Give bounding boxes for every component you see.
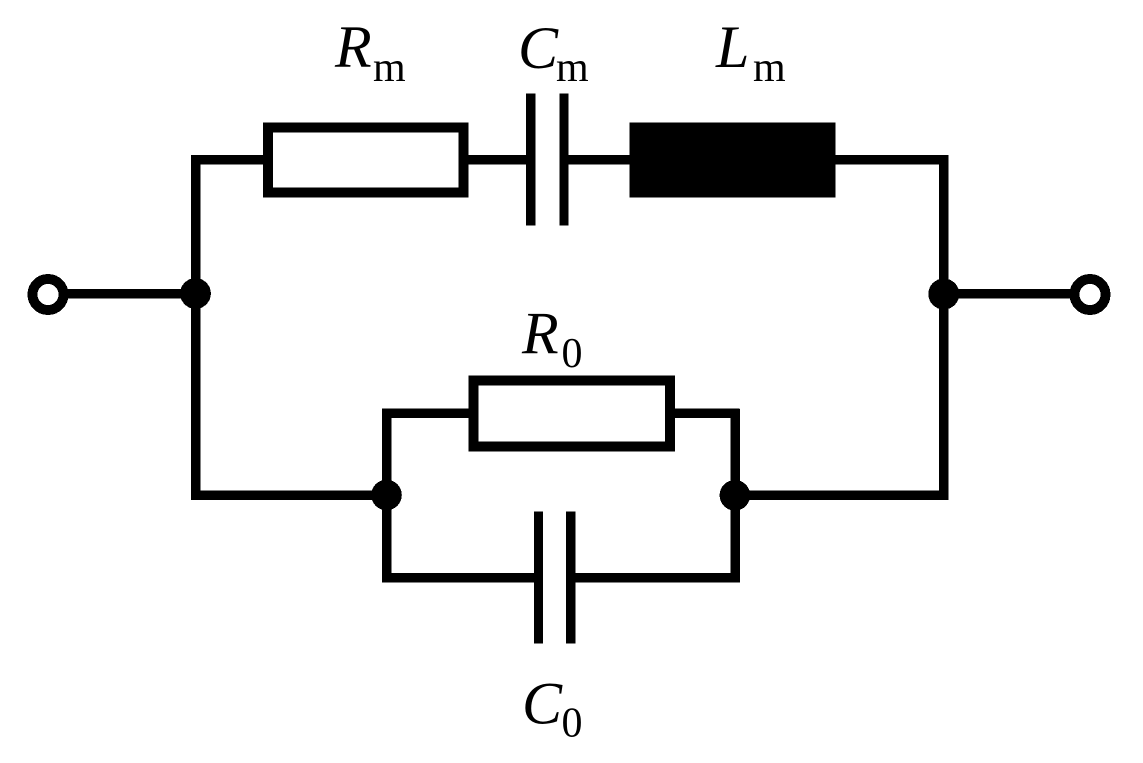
capacitor C_m [526, 94, 569, 226]
wire: C_0 left drop [382, 495, 392, 582]
resistor R_0 [474, 381, 670, 447]
wire: R_0 left horizontal [382, 409, 472, 419]
wire: right terminal lead [939, 289, 1072, 299]
wire: R_0 right drop [730, 409, 740, 495]
label L_m [715, 14, 786, 91]
node: bottom-left junction dot [371, 480, 402, 511]
svg-text:L: L [715, 14, 749, 80]
wire: C_0 left horizontal [382, 573, 536, 583]
inductor L_m (solid block) [630, 123, 836, 198]
svg-text:0: 0 [562, 701, 583, 747]
wire: R_0 right horizontal [672, 409, 740, 419]
node: left junction dot [180, 278, 211, 309]
wire: C_0 right riser [730, 495, 740, 582]
svg-text:R: R [334, 14, 372, 80]
svg-text:R: R [521, 301, 559, 367]
node: bottom-right junction dot [720, 480, 751, 511]
wire: R_m to C_m [466, 155, 528, 165]
output terminal (open circle) [1075, 279, 1106, 310]
wire: C_0 right horizontal [574, 573, 740, 583]
wire: bottom-right horizontal [731, 490, 949, 500]
wire: L_m to right vertical [833, 155, 949, 165]
label R_0 [521, 301, 583, 378]
wire: left terminal lead [66, 289, 200, 299]
wire: C_m to L_m [566, 155, 632, 165]
wire: bottom-left horizontal [191, 490, 390, 500]
svg-text:C: C [518, 15, 559, 81]
label C_0 [522, 671, 583, 747]
svg-text:m: m [556, 45, 589, 91]
svg-text:C: C [522, 671, 563, 737]
wire: R_0 left riser [382, 409, 392, 495]
wire: left vertical bus [191, 155, 201, 500]
label R_m [334, 14, 406, 91]
wire: right vertical bus [939, 155, 949, 500]
svg-text:m: m [373, 45, 406, 91]
wire: top-left horizontal to R_m [191, 155, 266, 165]
svg-text:0: 0 [562, 331, 583, 377]
node: right junction dot [928, 279, 959, 310]
label C_m [518, 15, 589, 91]
input terminal (open circle) [33, 279, 64, 310]
resistor R_m [268, 128, 464, 193]
capacitor C_0 [534, 512, 576, 644]
svg-text:m: m [753, 45, 786, 91]
